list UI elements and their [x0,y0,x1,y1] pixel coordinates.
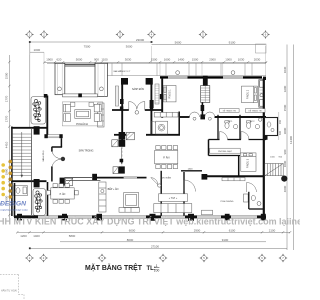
left chain ticks [8,61,10,216]
bottom windows triple lines [38,216,257,219]
pier at hall SW corner [119,140,126,147]
svg-text:2100: 2100 [269,228,276,232]
family room north wall [202,175,264,177]
bedroom2 door tag [208,117,211,120]
door tag D1 [135,111,139,115]
coffee table [75,110,91,119]
svg-text:1000: 1000 [270,157,276,159]
bed 1 [163,86,176,102]
landing black square [120,159,124,162]
svg-text:6100: 6100 [229,228,236,232]
window tag S3 [260,94,263,97]
canopy eave top line [47,62,266,64]
stair bottom wall [11,180,46,182]
stair east wall [31,129,33,215]
svg-text:SẢNH PHỤ: SẢNH PHỤ [42,150,45,162]
dining west wall [47,182,49,216]
kitchen door arc [151,178,158,185]
decor shelf left [220,109,240,113]
window bay east pier (living) [95,63,107,96]
porch column right [146,78,153,85]
rug outline [62,102,102,126]
bottom tier1 tick line [17,231,290,233]
bedroom1 west window pier [160,94,163,99]
planter top pier [44,94,48,98]
wc1 door arc [220,132,228,140]
understair WC fixtures [14,186,28,196]
sw L-wall [52,138,63,181]
fridge counter below bedroom1 [154,112,178,117]
svg-text:900: 900 [283,149,287,154]
entry wall segments [112,109,162,111]
axis marker 6 bottom [258,254,267,263]
kitchen island [124,193,139,208]
external east room [265,118,278,136]
left dim chain outer [8,55,10,218]
TIVI label box [159,194,188,202]
kitchen NW hatched box [66,178,73,185]
dimension numbers: bottom [20,228,275,248]
svg-text:KHO ĐỆM: KHO ĐỆM [161,177,171,180]
small room walls SW of family [161,171,202,216]
small room door arc [184,180,196,192]
svg-text:1030: 1030 [238,57,245,61]
external room toilet [267,122,271,127]
svg-text:5600: 5600 [175,41,182,45]
TV cabinet [154,204,192,213]
kitchen window in wall [124,177,137,179]
curved double door [52,152,62,167]
family small cabinet at bottom [202,210,213,215]
back-to-back closets [201,86,210,103]
stair landing arrow [121,148,123,163]
dimension numbers: top tier3 [46,57,260,61]
dimension numbers: top tier2 and overall [33,38,235,52]
dimension numbers: right side (rotated) [283,66,293,192]
axis marker 6 top [261,30,270,39]
armchairs right [94,104,101,121]
wc1 toilet [225,121,229,129]
svg-text:5000: 5000 [76,57,83,61]
porch west window hatch [115,86,118,106]
vertical counter [99,182,106,212]
bedroom divider south stub [201,102,203,114]
svg-text:1500: 1500 [151,57,158,61]
door knob dot [61,157,65,161]
hatched box beside SE pier [113,167,118,174]
left dim chain extension [29,42,31,127]
bottom wall piers [17,214,266,221]
svg-text:P.NGỦ 3: P.NGỦ 3 [246,158,249,168]
axis marker 3 bottom [98,254,107,263]
wall pier mid [92,174,97,181]
svg-text:1500: 1500 [283,104,287,111]
armchairs left [64,104,71,121]
axis marker 4 bottom [159,254,168,263]
svg-text:5800: 5800 [69,234,76,238]
living east cabinet [98,103,105,127]
window bay right (east facade) [259,80,264,108]
svg-text:620: 620 [56,57,61,61]
bedroom divider north pier [203,76,208,86]
svg-text:1000: 1000 [225,57,232,61]
bed 3 [241,153,256,171]
axis marker 5 top [199,30,208,39]
extension lines from dims to plan [30,44,266,96]
top tier3 tick line [44,61,267,63]
svg-text:KỆ TRANG TRÍ: KỆ TRANG TRÍ [249,110,263,113]
bottom wall thick segments [14,215,266,218]
svg-text:MÁI HIÊN B.T.C.T: MÁI HIÊN B.T.C.T [114,70,131,73]
axis marker 3 top [116,30,125,39]
living front wall [65,64,95,66]
svg-text:MẶT BẰNG TRỆT: MẶT BẰNG TRỆT [85,263,143,272]
corridor west wall [208,140,210,156]
svg-text:1100: 1100 [101,57,108,61]
svg-text:12400: 12400 [289,136,293,144]
bottom overall line [30,247,288,249]
bed 2 [242,86,258,103]
entry double door leaves and arcs [129,102,145,111]
stair top column [34,126,40,134]
svg-text:3000: 3000 [126,45,133,49]
hatched pier right of NW junction [126,132,134,139]
living west wall [46,96,48,135]
divider south pier [201,105,205,111]
dim line end dots [29,41,153,249]
hall west wall pier upper [120,99,124,104]
se wc walls [249,192,264,209]
stair direction arrow [21,132,23,176]
family wall pier [202,174,208,180]
bedroom west wall [161,78,163,118]
laundry south wall [209,155,241,157]
wc walls [209,115,267,140]
svg-text:1980: 1980 [5,168,9,175]
svg-text:900: 900 [94,57,99,61]
se wc sink [257,202,261,206]
svg-text:6000: 6000 [129,228,136,232]
lower counter strip [119,208,140,213]
east outer wall [263,78,265,217]
svg-text:600: 600 [279,130,282,135]
axis marker 7 bottom [279,254,288,263]
svg-text:P. ĂN: P. ĂN [163,156,169,159]
svg-text:1900: 1900 [46,57,53,61]
hall east wall [150,85,152,136]
svg-text:KIENTRUCTRIVIET.COM: KIENTRUCTRIVIET.COM [1,209,28,212]
svg-text:WC1: WC1 [228,121,234,123]
tv black square [78,93,82,97]
dimension numbers: left side (rotated) [5,72,9,202]
tick marks on dimension lines [16,61,291,233]
bedroom2 door arc [205,112,215,117]
se hall door arc [247,183,257,193]
svg-text:KỆ TRANG TRÍ: KỆ TRANG TRÍ [223,110,237,113]
svg-text:7500: 7500 [84,45,91,49]
right dim chain inner [286,45,288,251]
svg-text:ĐESIGN: ĐESIGN [0,201,26,208]
washer box [156,121,168,134]
svg-text:SÂN TRONG: SÂN TRONG [79,149,94,152]
bedroom front wall (with window gaps) [160,76,262,78]
bedroom1 door tag [193,117,196,120]
tag circle small room [158,184,161,187]
svg-text:3000: 3000 [283,127,287,134]
dining-kitchen south wall + window [97,177,147,179]
small box top right [256,44,267,53]
window bay west (living) [55,63,65,94]
left lower block west wall [14,183,16,217]
right dim chain outer [293,45,295,251]
svg-text:9100: 9100 [222,238,229,242]
stair west outer wall [11,127,13,217]
ne corner pier [263,77,266,80]
svg-text:3030: 3030 [125,57,132,61]
wc2 sink [255,124,259,128]
top overall dimension line right [152,44,266,46]
axis marker 5 bottom [200,254,209,263]
svg-text:P.SH CHUNG: P.SH CHUNG [221,201,234,203]
svg-text:900: 900 [279,119,282,124]
svg-text:1000: 1000 [33,48,40,52]
svg-text:+ TIVI +: + TIVI + [169,197,178,200]
pier courtyard SE [119,166,125,173]
stair treads [13,134,32,176]
small 1000 dim line [30,51,44,53]
window tag S1 [58,87,62,91]
svg-text:8600: 8600 [127,238,134,242]
window tag W1 [176,71,180,75]
hall door arc to kitchen side [151,121,163,135]
axis marker 4 top [147,30,156,39]
svg-text:23000: 23000 [136,38,145,42]
svg-text:2030: 2030 [254,57,261,61]
pier below external room [264,135,268,140]
svg-text:PHÒNG GIẶT: PHÒNG GIẶT [218,150,232,153]
courtyard east dashed line [121,147,123,166]
svg-text:2900: 2900 [194,228,201,232]
wc1 sink [233,124,237,128]
svg-text:1600: 1600 [164,57,171,61]
right inner dim line [278,112,280,140]
svg-text:1500: 1500 [5,72,9,79]
front windows triple lines [168,76,243,78]
svg-text:3200: 3200 [283,85,287,92]
svg-text:1770: 1770 [5,95,9,102]
small box near se wc door [244,194,249,202]
external room tag [271,128,274,131]
garden lower plants [35,191,43,212]
hatched pier beside [112,140,118,147]
hall west wall [121,85,123,147]
canopy eave bottom line [107,75,266,77]
stair top wall [11,127,46,129]
top overall dimension line left [30,41,152,43]
bed3 room west wall [238,156,240,177]
svg-text:27100: 27100 [151,244,159,248]
svg-text:1500: 1500 [192,57,199,61]
axis marker 2 top [40,30,49,39]
window tag S2 [100,87,104,91]
axis marker 1 top [25,30,34,39]
svg-text:HẦM TỰ HOẠI: HẦM TỰ HOẠI [1,290,17,293]
svg-text:9100: 9100 [229,41,236,45]
stair bottom column [34,179,40,187]
pier at hall NW junction [119,132,126,140]
tv cabinet front [63,94,98,97]
sw window with end piers [44,134,62,138]
utility east wall [178,112,180,135]
entry pier right [150,106,153,110]
bedroom1 door arc [190,112,200,117]
svg-text:P.NGỦ 2: P.NGỦ 2 [247,89,250,99]
bottom wall base [14,216,266,218]
svg-text:HH MTV KIẾN TRÚC XÂY DỰNG TRÍ: HH MTV KIẾN TRÚC XÂY DỰNG TRÍ VIỆT wẹb.k… [0,216,300,227]
kitchen NW pier [60,178,65,186]
svg-text:1770: 1770 [5,115,9,122]
svg-text:100: 100 [154,268,160,272]
svg-text:4000: 4000 [283,185,287,192]
laundry text box [210,148,240,153]
svg-text:1400: 1400 [178,57,185,61]
hall east wall pier [150,100,154,108]
tag circle near wc [259,118,262,121]
svg-text:1400: 1400 [33,234,40,238]
bedrooms south wall segments [180,116,266,118]
svg-text:WC2: WC2 [250,121,256,123]
axis marker 1 bottom [25,254,34,263]
side tables [71,102,94,106]
porch column left [121,78,128,85]
svg-text:1030: 1030 [283,66,287,73]
axis marker 2 bottom [39,254,48,263]
garden upper plants [33,99,41,121]
svg-text:SẢNH ĐÓN: SẢNH ĐÓN [132,88,144,91]
entry pier left [120,106,123,110]
svg-text:1200: 1200 [20,234,27,238]
decor shelf right [245,109,265,113]
window tag W2 [231,71,235,75]
mid wall under hall (segments) [114,134,180,136]
svg-text:1: 1 [156,264,158,268]
svg-text:P. ĂN: P. ĂN [60,193,66,196]
svg-text:BẾP + ĂN: BẾP + ĂN [108,188,119,191]
kitchen north wall [66,179,100,181]
divider end pier [200,114,205,119]
svg-text:4410: 4410 [5,141,9,148]
svg-text:P.NGỦ 1: P.NGỦ 1 [169,89,172,99]
porch east window hatch [155,84,159,104]
svg-text:P.KHÁCH: P.KHÁCH [76,122,88,126]
tree solid circle [281,176,287,182]
se wc toilet [251,195,255,201]
svg-text:1400: 1400 [188,169,194,171]
bottom tier2 line [60,241,266,243]
wc2 toilet [246,121,250,129]
canopy box dividers [111,63,113,75]
sideboard under family wall [222,178,245,181]
svg-text:2000: 2000 [209,57,216,61]
wc2 door arc [241,132,249,140]
